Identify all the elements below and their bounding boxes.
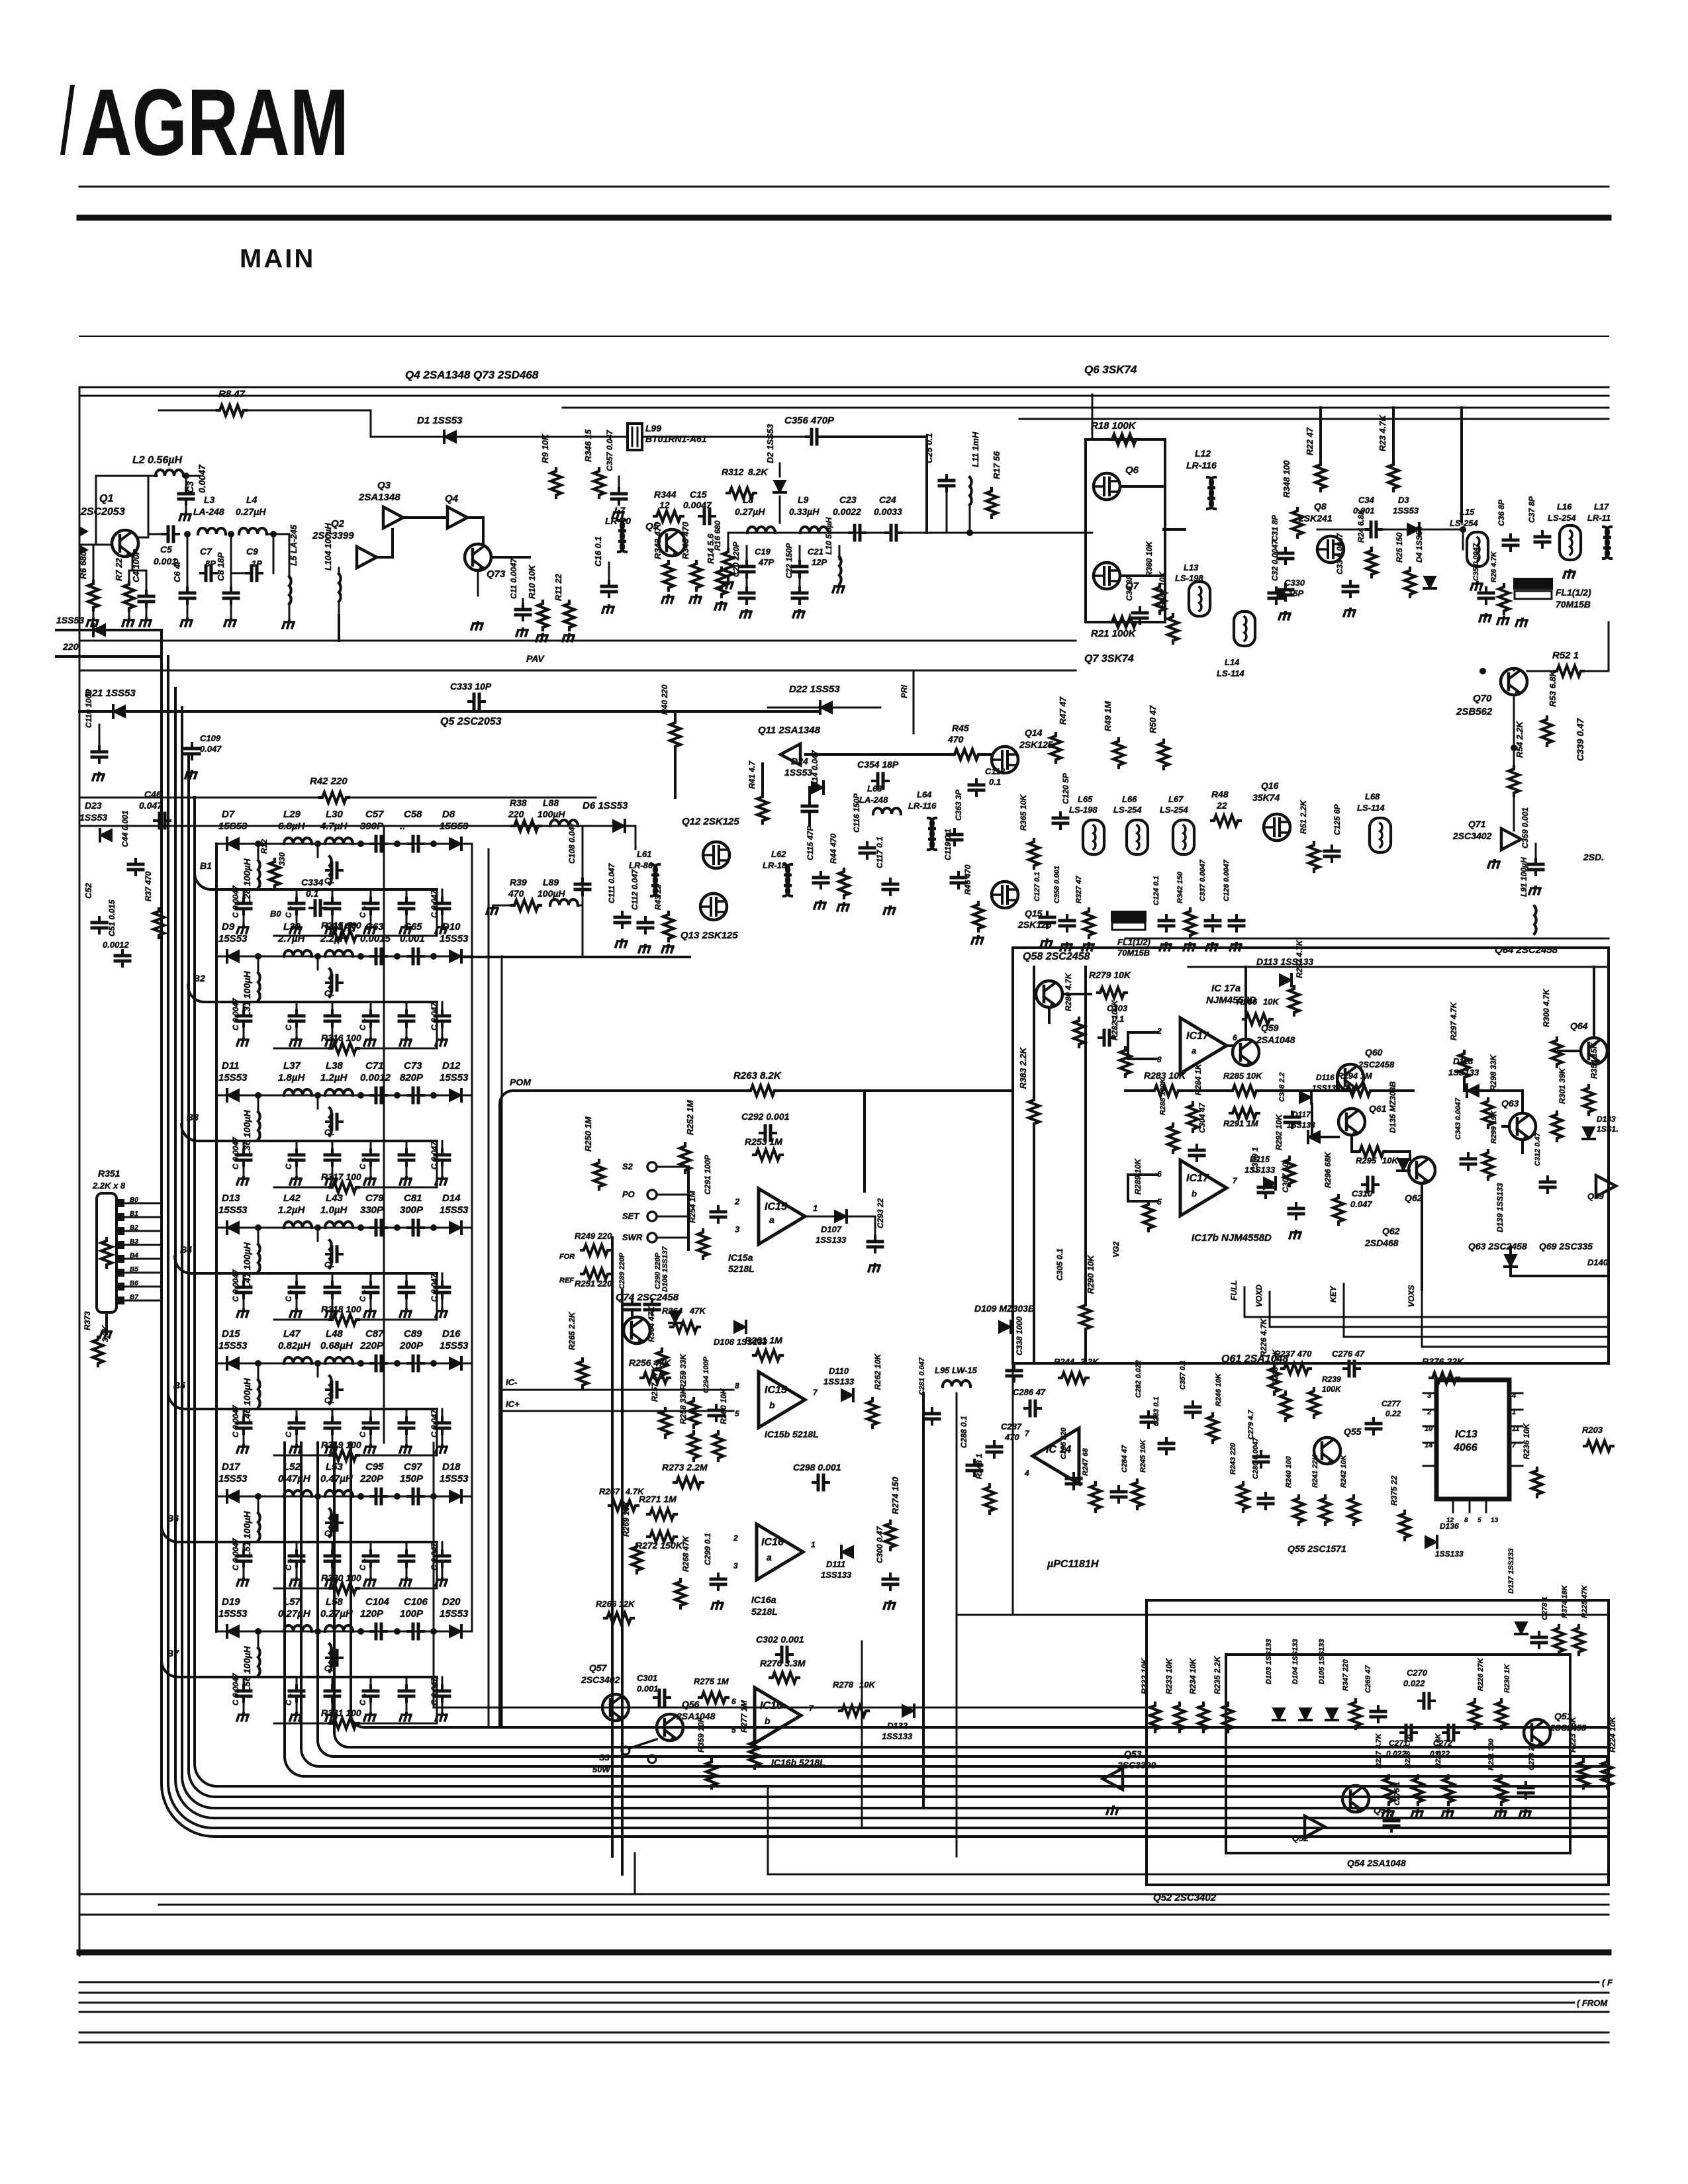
resistor R234 10K [1198, 1703, 1209, 1732]
svg-text:C19: C19 [755, 547, 771, 557]
resistor R249 220 [581, 1245, 610, 1255]
inductor L47 [284, 1357, 312, 1363]
capacitor shunt [332, 1542, 334, 1553]
svg-text:R50 47: R50 47 [1148, 705, 1158, 733]
capacitor C114 0.047 [802, 801, 817, 817]
svg-text:C71: C71 [365, 1060, 384, 1071]
svg-text:R240 100: R240 100 [1285, 1455, 1293, 1488]
svg-text:15S53: 15S53 [218, 1608, 248, 1619]
svg-text:Q2: Q2 [331, 518, 345, 529]
svg-text:R317 100: R317 100 [321, 1171, 361, 1182]
capacitor C330 15P [1269, 588, 1284, 604]
svg-text:B5: B5 [130, 1266, 138, 1273]
bus wire with corner [162, 630, 1609, 1837]
capacitor C301 0.001 [654, 1690, 670, 1705]
svg-text:D107: D107 [821, 1224, 842, 1234]
resistor R237 470 [1282, 1363, 1311, 1374]
svg-text:70M15B: 70M15B [1117, 948, 1150, 958]
inductor L89 100uH [550, 899, 578, 905]
diode D108 1SS133 [734, 1321, 746, 1333]
resistor R296 68K [1333, 1195, 1344, 1224]
svg-text:L64: L64 [917, 790, 932, 799]
bus wire [79, 640, 1076, 642]
capacitor C11 0.0047 [522, 599, 524, 606]
capacitor shunt [442, 1677, 444, 1688]
svg-text:R243 220: R243 220 [1229, 1442, 1237, 1475]
svg-text:C52: C52 [83, 882, 93, 899]
svg-text:L42: L42 [283, 1193, 301, 1204]
svg-text:D14: D14 [442, 1193, 461, 1204]
resistor R277 1M [749, 1739, 760, 1768]
resistor R265 2.2K [577, 1359, 588, 1388]
resistor R257 47K [660, 1408, 671, 1437]
svg-text:R245 10K: R245 10K [1139, 1439, 1147, 1473]
wire row1 extension [461, 956, 583, 958]
op-amp IC17a [1180, 1018, 1227, 1073]
input chevrons [79, 526, 89, 555]
svg-text:R226 4.7K: R226 4.7K [1259, 1318, 1268, 1357]
bus wire with corner [168, 657, 1609, 1828]
svg-text:LR-86: LR-86 [629, 860, 653, 870]
svg-text:B3: B3 [187, 1112, 199, 1122]
resistor R203 [1584, 1441, 1613, 1451]
bottom bus wire [79, 1914, 1609, 1916]
capacitor C286 47 [1025, 1401, 1041, 1416]
svg-text:15S53: 15S53 [218, 1205, 248, 1216]
svg-text:220: 220 [62, 641, 79, 652]
capacitor C125 6P [1325, 846, 1339, 862]
svg-text:12P: 12P [812, 557, 827, 567]
svg-text:2.2K x 8: 2.2K x 8 [92, 1181, 126, 1191]
capacitor shunt [370, 1409, 372, 1420]
inductor L52 [284, 1490, 312, 1496]
filter row B7 [162, 1596, 472, 1729]
svg-text:R54 2.2K: R54 2.2K [1515, 720, 1524, 758]
wire [1128, 1173, 1158, 1176]
bus wire with corner [195, 797, 1609, 1786]
inductor L58 [325, 1625, 353, 1631]
resistor R232 10K [1150, 1703, 1160, 1732]
wire [674, 749, 677, 797]
svg-text:C337 0.0047: C337 0.0047 [1199, 859, 1207, 901]
wire [1336, 1077, 1338, 1091]
transistor Q53 2SC3399 triangle [1103, 1768, 1123, 1790]
resistor R21 100K [1109, 617, 1139, 627]
svg-text:C3: C3 [185, 481, 195, 493]
capacitor C126 0.0047 [1229, 915, 1244, 931]
transistor Q5 [659, 529, 685, 556]
resistor R344 12 [654, 511, 683, 522]
inductor L95 LW-15 [943, 1381, 970, 1387]
capacitor shunt [296, 1542, 298, 1553]
inductor L3 LA-248 [198, 528, 226, 534]
svg-text:300P: 300P [400, 1205, 424, 1216]
wire [1120, 485, 1164, 488]
svg-text:Q64 2SC2458: Q64 2SC2458 [1495, 944, 1558, 956]
svg-text:PAV: PAV [526, 653, 545, 664]
resistor R17 56 [986, 488, 997, 518]
svg-text:L13: L13 [1184, 563, 1199, 572]
resistor R43 22 [663, 912, 674, 941]
diode D9 [227, 950, 239, 962]
svg-text:Q69: Q69 [1587, 1191, 1604, 1201]
wire [863, 1091, 866, 1191]
svg-text:R280 4.7K: R280 4.7K [1064, 972, 1073, 1011]
wire [861, 1641, 863, 1827]
array pin wire [117, 1241, 124, 1249]
svg-text:FL1(1/2): FL1(1/2) [1556, 587, 1591, 598]
bus wire [621, 1291, 624, 1874]
svg-text:C343 0.0047: C343 0.0047 [1454, 1097, 1462, 1140]
wire [1583, 670, 1609, 672]
svg-text:1SS133: 1SS133 [816, 1235, 847, 1245]
svg-text:1SS53: 1SS53 [784, 767, 812, 778]
bus wire IC- [500, 1389, 733, 1391]
svg-text:D118: D118 [1453, 1056, 1474, 1066]
resistor R373 3.3K [93, 1337, 103, 1366]
bus wire [383, 826, 385, 1443]
svg-text:0.68µH: 0.68µH [320, 1340, 353, 1351]
svg-text:R46 470: R46 470 [963, 864, 972, 895]
inductor L29 [284, 838, 312, 844]
rail wire [188, 985, 437, 1002]
svg-text:0.33µH: 0.33µH [789, 506, 820, 517]
wire [822, 435, 927, 438]
svg-text:R7 22: R7 22 [114, 558, 124, 581]
svg-text:Q73: Q73 [487, 569, 506, 580]
capacitor C9 1P [273, 534, 275, 573]
svg-text:Q54 2SA1048: Q54 2SA1048 [1347, 1858, 1406, 1868]
svg-text:11: 11 [1512, 1425, 1519, 1433]
svg-text:IC15b 5218L: IC15b 5218L [765, 1429, 819, 1439]
resistor R300 4.7K [1552, 1038, 1562, 1067]
svg-text:5218L: 5218L [751, 1606, 778, 1617]
svg-text:R43 22: R43 22 [653, 884, 663, 910]
wire [1527, 670, 1554, 672]
wire [702, 436, 806, 438]
svg-text:0.27µH: 0.27µH [320, 1608, 353, 1619]
resistor R258 33K [688, 1432, 699, 1461]
svg-text:LA-248: LA-248 [859, 795, 888, 805]
resistor R354 15K [1583, 1085, 1594, 1115]
resistor R262 10K [867, 1398, 878, 1428]
capacitor C110 100P [99, 725, 101, 748]
capacitor C33 0.0047 [1343, 581, 1358, 597]
capacitor C15 0.0047 [699, 509, 715, 523]
svg-text:C37 8P: C37 8P [1527, 496, 1536, 523]
resistor R12 330 [269, 859, 280, 888]
svg-text:R49 1M: R49 1M [1103, 700, 1113, 731]
svg-text:2SK241: 2SK241 [1298, 513, 1333, 523]
svg-text:3: 3 [735, 1224, 740, 1234]
svg-text:C ..: C .. [284, 905, 293, 918]
svg-text:C293 22: C293 22 [876, 1198, 885, 1228]
svg-text:D109 MZ303B: D109 MZ303B [974, 1303, 1035, 1314]
bus wire PAV [79, 670, 1076, 672]
bus wire IC+ [500, 1410, 733, 1412]
capacitor C97 [408, 1489, 424, 1504]
capacitor C108 0.047 [575, 879, 590, 895]
svg-text:C304 47: C304 47 [1197, 1102, 1207, 1133]
svg-text:L91 100µH: L91 100µH [1519, 857, 1528, 897]
transistor Q70 2SB562 [1501, 668, 1527, 695]
capacitor C120 5P [1053, 813, 1068, 829]
svg-text:1SS133: 1SS133 [823, 1377, 855, 1387]
resistor R260 10K [713, 1432, 724, 1461]
svg-text:Q63 2SC2458: Q63 2SC2458 [1468, 1241, 1527, 1251]
diode D16 [449, 1357, 461, 1369]
diode D103 1SS133 v [1273, 1708, 1285, 1720]
svg-text:C276 47: C276 47 [1332, 1349, 1365, 1359]
diode D4 1SS53 vertical [1424, 576, 1436, 588]
bus wire [1125, 938, 1609, 940]
resistor R239 100K [1309, 1388, 1319, 1418]
resistor R343 470 [663, 561, 674, 590]
resistor R297 4.7K [1459, 1051, 1470, 1080]
inductor L11 1mH [970, 477, 972, 505]
svg-text:15S53: 15S53 [440, 1205, 469, 1216]
svg-text:0.82µH: 0.82µH [278, 1340, 311, 1351]
svg-text:R275 1M: R275 1M [694, 1676, 729, 1686]
IC pin wire [1423, 1442, 1436, 1444]
svg-text:C285 220: C285 220 [1060, 1427, 1068, 1459]
wire [456, 436, 596, 438]
svg-text:IC16a: IC16a [751, 1594, 776, 1605]
capacitor C357 0.047 [618, 477, 620, 490]
transistor Q58 [1036, 981, 1062, 1007]
svg-text:C81: C81 [404, 1193, 422, 1204]
svg-text:R297 4.7K: R297 4.7K [1449, 1001, 1458, 1040]
op-amp IC15b [759, 1372, 805, 1428]
capacitor C271 0.022 [1401, 1725, 1417, 1740]
svg-text:D24: D24 [791, 756, 808, 766]
resistor R360 10K [1154, 584, 1165, 614]
wire [1350, 1135, 1353, 1152]
resistor R319 [330, 1450, 359, 1461]
inductor L38 [325, 1089, 353, 1095]
diode D19 [227, 1625, 239, 1637]
svg-text:R287 4.7K: R287 4.7K [1295, 939, 1304, 978]
svg-text:C15: C15 [690, 489, 707, 500]
svg-text:C24: C24 [879, 494, 896, 505]
capacitor C119 0.1 [951, 872, 966, 888]
wire [246, 410, 371, 437]
resistor R287 4.7K [1289, 986, 1299, 1015]
svg-text:R38: R38 [510, 797, 527, 808]
capacitor C358 0.001 [1060, 915, 1074, 931]
svg-text:1SS133: 1SS133 [1435, 1549, 1464, 1559]
wire VOXD [1270, 1292, 1609, 1327]
resistor R315 [330, 931, 359, 941]
svg-text:R10 10K: R10 10K [527, 564, 537, 599]
svg-text:Q62: Q62 [1382, 1226, 1400, 1236]
resistor R347 220 [1350, 1700, 1361, 1729]
wire [808, 788, 811, 802]
bus wire [611, 1238, 614, 1856]
wire [1317, 529, 1365, 531]
svg-text:Q12 2SK125: Q12 2SK125 [682, 816, 739, 827]
array pin wire [117, 1213, 124, 1221]
svg-text:D13: D13 [222, 1193, 240, 1204]
svg-text:C ..: C .. [358, 1018, 367, 1030]
resistor R290 10K [1080, 1302, 1091, 1332]
capacitor C289 220P [625, 1299, 639, 1315]
svg-text:L66: L66 [1122, 794, 1137, 804]
svg-text:R42 220: R42 220 [310, 776, 348, 787]
svg-text:L88: L88 [543, 797, 559, 808]
resistor R272 150K [647, 1531, 677, 1542]
svg-text:D10: D10 [442, 921, 461, 933]
svg-text:D133: D133 [1597, 1115, 1616, 1124]
svg-text:R301 39K: R301 39K [1558, 1068, 1567, 1104]
svg-text:2SC3402: 2SC3402 [581, 1674, 620, 1685]
svg-text:L37: L37 [283, 1060, 301, 1071]
capacitor C89 [408, 1356, 424, 1371]
svg-text:R290 10K: R290 10K [1086, 1254, 1096, 1294]
svg-text:R17 56: R17 56 [992, 451, 1002, 479]
resistor R51 2.2K [1309, 842, 1319, 872]
resistor R261 1M [753, 1350, 782, 1361]
svg-text:R360 10K: R360 10K [1145, 541, 1154, 577]
IC pin wire [1423, 1426, 1436, 1428]
diode D136 1SS133 [1425, 1536, 1437, 1548]
diode D116 1SS133 [1299, 1091, 1311, 1103]
inductor L64 LR-116 [928, 818, 936, 850]
op-amp IC16a [757, 1524, 803, 1580]
wire [1311, 1104, 1313, 1137]
svg-text:VG2: VG2 [1111, 1242, 1121, 1257]
svg-text:L4: L4 [246, 494, 258, 505]
svg-text:Q74 2SC2458: Q74 2SC2458 [616, 1292, 679, 1303]
transistor Q59 2SA1048 [1233, 1039, 1259, 1066]
svg-text:0.1: 0.1 [989, 777, 1001, 787]
FET Q14 2SK125 [992, 747, 1018, 773]
wire emitter [132, 555, 146, 589]
svg-text:D113 1SS133: D113 1SS133 [1256, 956, 1313, 967]
resistor R18 100K [1109, 434, 1139, 445]
inductor L33 [325, 950, 353, 956]
wire [635, 826, 637, 849]
svg-text:Q52: Q52 [1292, 1833, 1309, 1843]
svg-text:R289 10K: R289 10K [1133, 1158, 1143, 1195]
transistor Q3 2SA1348 triangle [383, 507, 403, 528]
bus wire [434, 1707, 1147, 1709]
resistor R14 5.6 [716, 568, 727, 597]
capacitor shunt [442, 1409, 444, 1420]
resistor R6 680 [88, 581, 99, 610]
resistor R7 22 [128, 570, 130, 582]
capacitor mid [326, 1516, 342, 1530]
svg-text:µPC1181H: µPC1181H [1047, 1559, 1099, 1570]
svg-text:R203: R203 [1582, 1425, 1603, 1435]
inductor L63 LA-248 [873, 808, 901, 814]
svg-text:L2 0.56µH: L2 0.56µH [132, 455, 182, 466]
svg-text:R276 3.3M: R276 3.3M [760, 1658, 806, 1668]
inductor L15 LS-254 [1467, 532, 1488, 567]
capacitor C58 [408, 837, 424, 851]
svg-text:LS-254: LS-254 [1160, 805, 1188, 815]
svg-text:120P: 120P [360, 1608, 384, 1619]
svg-text:D117: D117 [1292, 1110, 1311, 1119]
wire FULL [1244, 1287, 1609, 1317]
resistor R275 1M [699, 1692, 728, 1703]
inductor L46 shunt [258, 1363, 259, 1381]
capacitor mid [326, 863, 342, 878]
svg-text:R229 5.6K: R229 5.6K [1434, 1733, 1442, 1768]
capacitor C309 1 [1258, 1182, 1273, 1198]
svg-text:C79: C79 [365, 1193, 384, 1204]
svg-text:C46: C46 [144, 789, 162, 799]
inductor L32 [284, 950, 312, 956]
diode D13 [227, 1222, 239, 1234]
resistor R41 4.7 [757, 794, 768, 823]
svg-text:C23: C23 [839, 494, 857, 505]
capacitor mid [326, 976, 342, 990]
wire [625, 825, 635, 827]
svg-text:R291 1M: R291 1M [1223, 1118, 1259, 1128]
svg-text:C30 3P: C30 3P [1125, 574, 1134, 601]
diode D132 1SS133 [902, 1705, 914, 1717]
resistor R230 1K [1496, 1700, 1507, 1729]
svg-text:0.1: 0.1 [306, 888, 319, 899]
svg-text:C305 0.1: C305 0.1 [1055, 1248, 1064, 1281]
wire [832, 707, 880, 709]
resistor R225 47K [1573, 1625, 1584, 1655]
svg-text:C124 0.1: C124 0.1 [1152, 876, 1160, 905]
svg-text:LA-248: LA-248 [193, 506, 224, 517]
wire [1227, 1044, 1233, 1047]
svg-text:Q16: Q16 [1261, 780, 1279, 791]
switch S2 contacts [647, 1162, 657, 1171]
svg-text:R16 680: R16 680 [713, 520, 722, 551]
capacitor C269 47 [1371, 1706, 1385, 1722]
svg-text:VOXS: VOXS [1407, 1285, 1416, 1307]
capacitor C298 0.001 [813, 1475, 829, 1490]
svg-text:B1: B1 [200, 860, 212, 871]
svg-text:L48: L48 [326, 1328, 344, 1340]
svg-text:SET: SET [622, 1211, 639, 1221]
svg-text:B0: B0 [270, 909, 281, 919]
svg-text:C 0.0047: C 0.0047 [231, 1404, 240, 1437]
transistor Q11 2SA1348 triangle [780, 744, 800, 765]
svg-text:L7: L7 [614, 505, 626, 516]
capacitor mid [326, 1651, 342, 1665]
svg-text:D103 1SS133: D103 1SS133 [1265, 1639, 1273, 1685]
svg-text:IC13: IC13 [1455, 1429, 1477, 1440]
resistor R23 4.7K [1388, 462, 1399, 491]
svg-text:10: 10 [1425, 1425, 1433, 1433]
capacitor shunt [406, 1273, 408, 1285]
filter FL1 70M15B [1515, 579, 1552, 588]
svg-text:Q55 2SC1571: Q55 2SC1571 [1288, 1543, 1346, 1554]
svg-text:IC-: IC- [506, 1377, 517, 1387]
svg-text:LS-114: LS-114 [1217, 668, 1244, 678]
svg-text:R298 33K: R298 33K [1489, 1054, 1498, 1091]
svg-text:R226 27K: R226 27K [1477, 1657, 1485, 1691]
capacitor C116 150P [860, 842, 874, 858]
capacitor shunt [406, 1002, 408, 1013]
svg-text:REF: REF [559, 1277, 574, 1285]
capacitor C343 0.0047 [1461, 1154, 1476, 1169]
resistor R248 1 [984, 1484, 995, 1514]
resistor R250 1M [594, 1160, 604, 1189]
svg-text:R294 1M: R294 1M [1337, 1071, 1373, 1081]
svg-text:6: 6 [731, 1697, 736, 1706]
svg-text:Q13 2SK125: Q13 2SK125 [680, 930, 738, 941]
svg-text:B4: B4 [180, 1244, 192, 1255]
svg-text:330: 330 [277, 852, 287, 866]
capacitor C79 [371, 1220, 387, 1235]
